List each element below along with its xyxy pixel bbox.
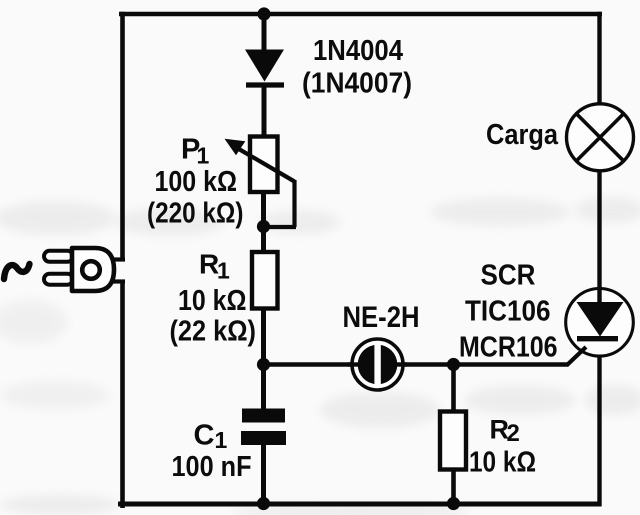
node R2 junction xyxy=(447,358,460,371)
svg-text:C: C xyxy=(194,420,215,452)
svg-text:2: 2 xyxy=(507,420,520,447)
svg-text:(220 kΩ): (220 kΩ) xyxy=(147,198,244,230)
svg-text:NE-2H: NE-2H xyxy=(343,301,420,334)
svg-text:(1N4007): (1N4007) xyxy=(302,68,412,100)
node bottom junction C1 xyxy=(257,497,270,510)
svg-text:1N4004: 1N4004 xyxy=(313,35,403,67)
svg-text:1: 1 xyxy=(197,143,210,169)
svg-text:100 kΩ: 100 kΩ xyxy=(155,166,238,198)
wire right rail mid xyxy=(597,169,601,302)
wire node A to C1 xyxy=(261,364,266,410)
potentiometer P1 xyxy=(225,137,297,228)
wire left rail upper xyxy=(120,12,125,260)
wire bottom rail xyxy=(118,502,602,507)
svg-text:MCR106: MCR106 xyxy=(459,332,558,364)
wire diode cathode to P1 xyxy=(262,84,267,138)
wire diode anode xyxy=(262,14,267,52)
AC plug xyxy=(44,248,125,291)
wire R2 bottom xyxy=(451,468,456,504)
svg-text:100 nF: 100 nF xyxy=(172,451,252,483)
AC tilde symbol xyxy=(4,264,30,279)
node bottom junction R2 xyxy=(447,497,460,510)
svg-text:Carga: Carga xyxy=(486,119,559,151)
svg-text:10 kΩ: 10 kΩ xyxy=(469,447,536,479)
SCR Q1 xyxy=(566,289,634,366)
capacitor C1 xyxy=(241,409,286,446)
wire right rail bottom xyxy=(597,340,601,506)
wire right rail top xyxy=(597,12,601,106)
svg-text:1: 1 xyxy=(217,258,230,284)
svg-text:SCR: SCR xyxy=(481,260,536,292)
svg-text:1: 1 xyxy=(215,427,228,453)
resistor R2 xyxy=(440,412,466,470)
node top junction xyxy=(257,7,270,20)
wire left rail lower xyxy=(120,281,125,508)
resistor R1 xyxy=(252,252,278,309)
svg-text:TIC106: TIC106 xyxy=(465,296,551,328)
wire P1 to R1 xyxy=(261,191,266,253)
diode D1 xyxy=(245,50,284,86)
node P1 wiper junction xyxy=(257,220,270,233)
wire R1 to node A xyxy=(261,308,266,366)
node A junction R1/C1/gate xyxy=(257,358,270,371)
wire top rail xyxy=(119,12,602,17)
svg-text:(22 kΩ): (22 kΩ) xyxy=(170,316,257,348)
lamp Carga xyxy=(567,104,634,171)
wire gate horizontal xyxy=(264,362,569,366)
neon lamp NE-2H xyxy=(348,339,407,390)
wire C1 to bottom rail xyxy=(261,443,266,504)
wire R2 top xyxy=(451,365,456,414)
svg-text:10 kΩ: 10 kΩ xyxy=(178,285,247,317)
